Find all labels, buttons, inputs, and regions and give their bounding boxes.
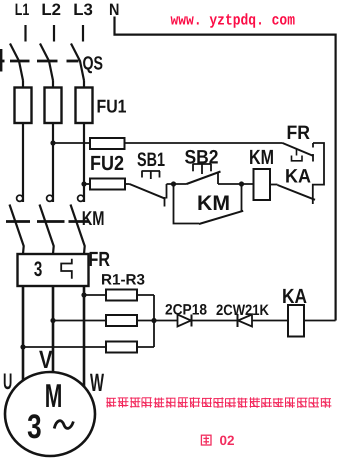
svg-text:3: 3: [27, 408, 41, 446]
svg-text:02: 02: [220, 433, 235, 448]
svg-text:FU2: FU2: [90, 152, 124, 175]
svg-text:L1: L1: [15, 1, 29, 19]
svg-text:QS: QS: [83, 54, 104, 75]
svg-text:W: W: [90, 369, 104, 397]
svg-text:2CW21K: 2CW21K: [216, 302, 269, 319]
svg-text:FR: FR: [89, 248, 111, 271]
svg-text:U: U: [3, 369, 12, 394]
svg-text:R1-R3: R1-R3: [101, 272, 145, 289]
svg-text:V: V: [39, 346, 53, 374]
svg-text:L3: L3: [73, 1, 93, 19]
svg-text:KM: KM: [197, 192, 230, 215]
svg-text:M: M: [45, 377, 63, 414]
svg-text:SB1: SB1: [137, 149, 165, 171]
svg-text:www. yztpdq. com: www. yztpdq. com: [171, 11, 296, 29]
svg-text:FU1: FU1: [97, 96, 127, 117]
svg-text:FR: FR: [287, 122, 311, 144]
svg-text:3: 3: [34, 258, 42, 281]
svg-text:KM: KM: [249, 146, 274, 169]
svg-text:N: N: [109, 1, 119, 19]
svg-text:KM: KM: [82, 208, 105, 230]
svg-text:L2: L2: [41, 1, 61, 19]
svg-text:2CP18: 2CP18: [165, 302, 207, 319]
svg-text:KA: KA: [285, 166, 311, 188]
